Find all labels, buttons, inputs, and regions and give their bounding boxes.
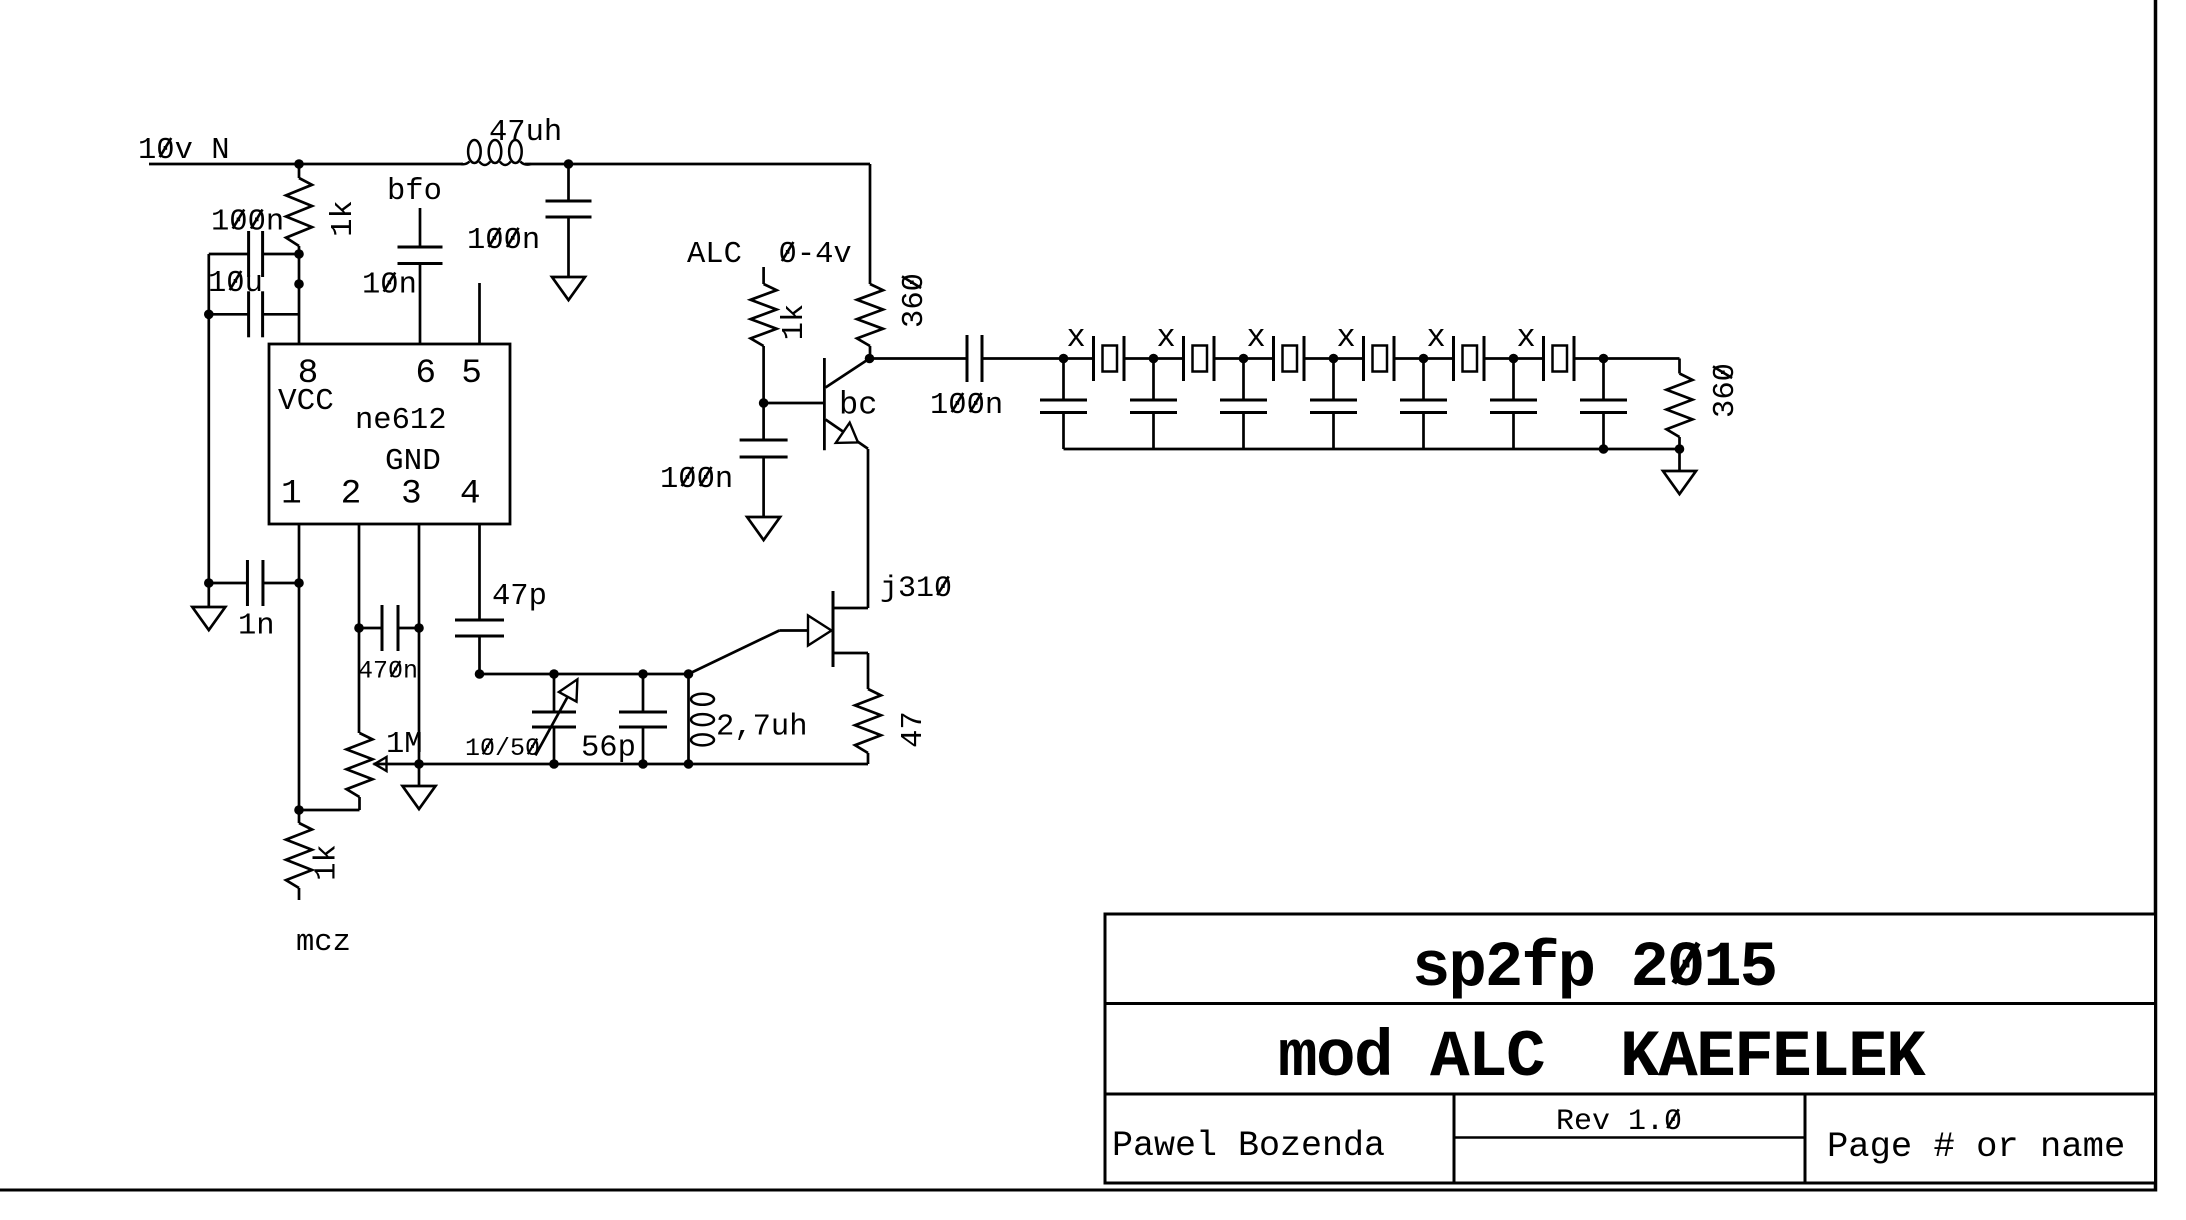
- svg-text:1k: 1k: [327, 200, 361, 237]
- svg-text:2: 2: [341, 474, 362, 513]
- svg-text:VCC: VCC: [278, 384, 334, 419]
- transistor Q1 bc base wire: [764, 402, 825, 405]
- wire 10v rail left segment: [149, 163, 463, 166]
- trimmer capacitor C8 10/50: [553, 674, 556, 712]
- junction dot collector node: [865, 354, 875, 364]
- label R3 1k: [311, 844, 345, 881]
- junction dot 47p bottom node: [475, 669, 485, 679]
- junction dot C3 left: [204, 578, 214, 588]
- wire filter node 5 to crystal X5: [1424, 357, 1454, 360]
- crystal X5: [1452, 336, 1455, 381]
- junction dot base node: [759, 398, 769, 408]
- crystal X3: [1272, 336, 1275, 381]
- ground G4: [747, 517, 780, 540]
- svg-text:4: 4: [460, 474, 481, 513]
- wire filter node 1 to crystal X1: [1064, 357, 1094, 360]
- label R1 1k: [327, 200, 361, 237]
- IC U1 ne612 body: [269, 344, 510, 524]
- svg-text:5: 5: [461, 354, 482, 393]
- resistor R3 1k: [298, 810, 301, 823]
- wire tank bottom bus: [374, 763, 869, 766]
- resistor R5 1k ALC: [762, 267, 765, 284]
- junction dot filter node 6: [1509, 354, 1519, 364]
- svg-text:x: x: [1247, 319, 1266, 356]
- svg-text:mcz: mcz: [296, 926, 351, 960]
- svg-text:Page # or name: Page # or name: [1827, 1126, 2125, 1167]
- svg-text:sp2fp 2015: sp2fp 2015: [1412, 933, 1776, 1005]
- junction dot filter node 1: [1059, 354, 1069, 364]
- svg-text:Pawel Bozenda: Pawel Bozenda: [1112, 1126, 1385, 1166]
- wire pin3 stub to ground G3: [418, 764, 421, 786]
- junction dot L2 bottom: [684, 759, 694, 769]
- junction dot 56p bottom: [638, 759, 648, 769]
- svg-text:47uh: 47uh: [489, 116, 562, 150]
- wire filter node 2 to crystal X2: [1154, 357, 1184, 360]
- junction dot filter node 4: [1329, 354, 1339, 364]
- junction dot filter node 2: [1149, 354, 1159, 364]
- junction dot filter node 5: [1419, 354, 1429, 364]
- title block vertical divider 1: [1453, 1094, 1456, 1183]
- svg-text:470n: 470n: [358, 657, 418, 686]
- svg-text:100n: 100n: [467, 224, 540, 258]
- capacitor C10 100n ALC: [762, 403, 765, 440]
- svg-text:x: x: [1427, 319, 1446, 356]
- wire U1 pin 2 down: [358, 524, 361, 733]
- capacitor C3 1n: [209, 582, 248, 585]
- wire stub to ground G5: [1678, 449, 1681, 471]
- ground G3: [403, 786, 436, 809]
- svg-text:1k: 1k: [311, 844, 345, 881]
- transistor Q2 j310 gate wire: [689, 631, 780, 675]
- transistor Q2 j310 gate arrow: [808, 616, 832, 646]
- transistor Q2 j310 source lead: [833, 652, 868, 655]
- svg-text:bc: bc: [839, 387, 877, 424]
- svg-text:ne612: ne612: [355, 404, 447, 438]
- title block outer box: [1105, 914, 2156, 1183]
- svg-text:360: 360: [898, 273, 932, 328]
- svg-text:6: 6: [415, 354, 436, 393]
- capacitor C13 filter shunt: [1152, 359, 1155, 400]
- junction node B after 47uh: [564, 159, 574, 169]
- junction dot L2 top: [684, 669, 694, 679]
- ground G5: [1663, 471, 1696, 494]
- wire filter node 3 to crystal X3: [1244, 357, 1274, 360]
- junction dot pin3 bus: [414, 759, 424, 769]
- capacitor C11 100n coupling: [870, 357, 968, 360]
- svg-text:Rev 1.0: Rev 1.0: [1556, 1105, 1682, 1139]
- svg-text:1M: 1M: [386, 728, 423, 762]
- svg-text:360: 360: [1709, 363, 1743, 418]
- wire 10v rail right segment: [525, 163, 870, 166]
- transistor Q2 j310 channel bar: [832, 591, 835, 667]
- ground G1: [552, 277, 585, 300]
- junction dot C1 right: [294, 249, 304, 259]
- svg-text:10u: 10u: [208, 267, 263, 301]
- title block vertical divider 2: [1804, 1094, 1807, 1183]
- title block divider 1: [1105, 1002, 2156, 1005]
- wire crystal X6 to node 7: [1574, 357, 1604, 360]
- IC U1 pin 5 stub wire: [478, 283, 481, 344]
- title block divider 2: [1105, 1093, 2156, 1096]
- capacitor C5 100n decoupling: [567, 164, 570, 201]
- label R7 360: [1709, 363, 1743, 418]
- svg-text:56p: 56p: [581, 732, 636, 766]
- svg-text:100n: 100n: [211, 206, 284, 240]
- label R6 360: [898, 273, 932, 328]
- capacitor C18 filter shunt: [1602, 359, 1605, 400]
- resistor R1 1k: [298, 164, 301, 178]
- potentiometer R2 1M: [347, 733, 373, 797]
- svg-text:x: x: [1067, 319, 1086, 356]
- crystal X1: [1092, 336, 1095, 381]
- junction dot trimmer top: [549, 669, 559, 679]
- transistor Q1 bc collector: [826, 359, 870, 388]
- svg-text:x: x: [1337, 319, 1356, 356]
- svg-text:mod ALC KAEFELEK: mod ALC KAEFELEK: [1278, 1020, 1926, 1095]
- junction dot R7 bottom: [1675, 444, 1685, 454]
- transistor Q1 bc emitter: [826, 420, 869, 449]
- label R4 47: [897, 711, 931, 748]
- svg-text:2,7uh: 2,7uh: [716, 711, 808, 745]
- resistor R7 360: [1678, 359, 1681, 374]
- wire crystal X3 to node 4: [1304, 357, 1334, 360]
- IC U1 pin 8 wire: [298, 254, 301, 344]
- junction dot C6 left: [354, 623, 364, 633]
- junction node A at 1k resistor top: [294, 159, 304, 169]
- capacitor C9 56p: [642, 674, 645, 712]
- svg-text:47: 47: [897, 711, 931, 748]
- junction dot 56p top: [638, 669, 648, 679]
- capacitor C1 100n: [209, 253, 249, 256]
- inductor L1 47uh: [461, 140, 531, 165]
- svg-text:47p: 47p: [492, 580, 547, 614]
- junction dot filter node 7: [1599, 354, 1609, 364]
- wire filter ground bus: [1064, 448, 1680, 451]
- resistor R6 360: [869, 164, 872, 284]
- svg-text:10n: 10n: [362, 269, 417, 303]
- junction dot pot bottom to pin1: [294, 805, 304, 815]
- crystal X4: [1362, 336, 1365, 381]
- sheet border bottom edge: [0, 1189, 2157, 1192]
- junction dot below C1 on pin8 wire: [294, 279, 304, 289]
- capacitor C4 10n bfo coupling: [419, 208, 422, 247]
- wire U1 pin 1 down: [298, 524, 301, 810]
- wire crystal X4 to node 5: [1394, 357, 1424, 360]
- sheet border right edge: [2154, 0, 2158, 1192]
- capacitor C15 filter shunt: [1332, 359, 1335, 400]
- potentiometer R2 wiper arrow: [375, 757, 387, 771]
- svg-text:3: 3: [401, 474, 422, 513]
- svg-text:x: x: [1157, 319, 1176, 356]
- capacitor C17 filter shunt: [1512, 359, 1515, 400]
- crystal X2: [1182, 336, 1185, 381]
- svg-text:1: 1: [281, 474, 302, 513]
- resistor R4 47: [855, 689, 881, 753]
- svg-text:100n: 100n: [930, 389, 1003, 423]
- wire tank top node: [480, 673, 690, 676]
- wire crystal X5 to node 6: [1484, 357, 1514, 360]
- svg-text:1k: 1k: [778, 304, 812, 341]
- wire crystal X1 to node 2: [1124, 357, 1154, 360]
- capacitor C16 filter shunt: [1422, 359, 1425, 400]
- junction dot C3 right on pin1 wire: [294, 578, 304, 588]
- wire filter output to R7: [1604, 357, 1680, 360]
- svg-text:100n: 100n: [660, 463, 733, 497]
- svg-text:10/50: 10/50: [465, 734, 540, 763]
- junction dot C2 left: [204, 310, 214, 320]
- wire crystal X2 to node 3: [1214, 357, 1244, 360]
- wire U1 pin 3 down: [418, 524, 421, 764]
- transistor Q2 j310 drain lead: [833, 607, 868, 610]
- capacitor C14 filter shunt: [1242, 359, 1245, 400]
- wire filter node 4 to crystal X4: [1334, 357, 1364, 360]
- wire left bypass rail vertical: [207, 254, 210, 583]
- capacitor C6 470n: [359, 627, 382, 630]
- capacitor C7 47p: [478, 524, 481, 620]
- transistor Q1 bc base bar: [823, 358, 826, 450]
- capacitor C12 filter shunt: [1062, 359, 1065, 400]
- svg-text:ALC 0-4v: ALC 0-4v: [687, 238, 852, 272]
- title block rev divider: [1454, 1136, 1805, 1139]
- label R5 1k: [778, 304, 812, 341]
- wire filter node 6 to crystal X6: [1514, 357, 1544, 360]
- junction dot trimmer bottom: [549, 759, 559, 769]
- inductor L2 2,7uh: [687, 674, 690, 764]
- junction dot bus at last node: [1599, 444, 1609, 454]
- capacitor C2 10u: [209, 313, 249, 316]
- ground G2: [192, 607, 225, 630]
- trimmer C8 arrow: [535, 697, 567, 755]
- svg-text:1n: 1n: [238, 610, 275, 644]
- junction dot filter node 3: [1239, 354, 1249, 364]
- junction dot C6 right: [414, 623, 424, 633]
- svg-text:bfo: bfo: [387, 175, 442, 209]
- svg-text:x: x: [1517, 319, 1536, 356]
- crystal X6: [1542, 336, 1545, 381]
- wire stub to ground G2: [207, 583, 210, 607]
